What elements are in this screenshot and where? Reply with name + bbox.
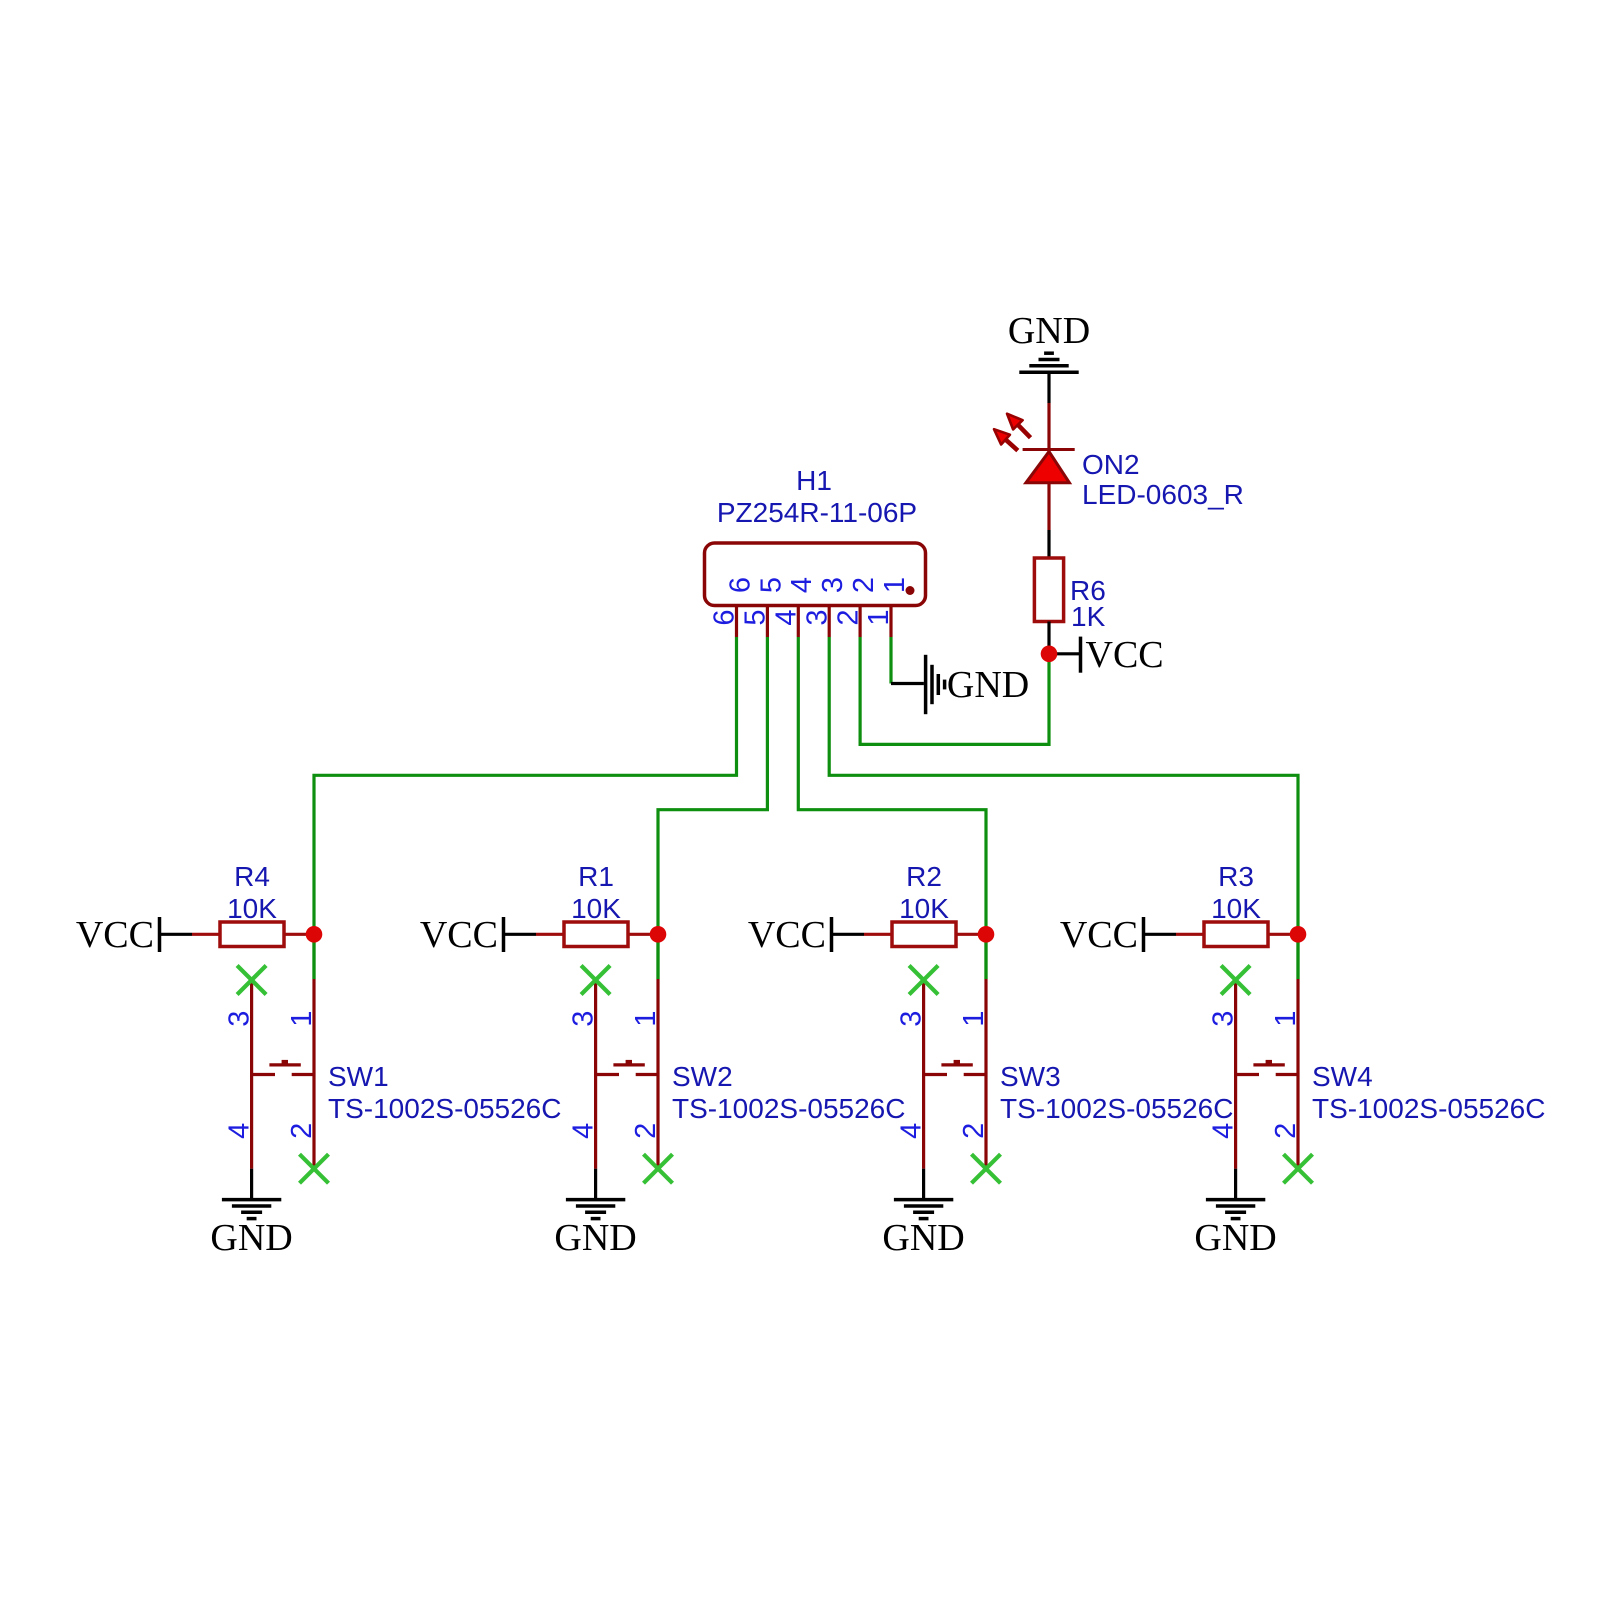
ground symbol GND (SW3) — [882, 1200, 964, 1259]
resistor R6 — [1034, 558, 1063, 622]
wire switch pin 4 to GND (SW2) — [594, 1169, 597, 1200]
svg-text:TS-1002S-05526C: TS-1002S-05526C — [328, 1093, 561, 1124]
power port VCC (section 1) — [76, 914, 192, 956]
wire node to switch pin 1 (section 3) — [984, 934, 987, 979]
resistor R3 — [1176, 922, 1298, 947]
ground symbol GND (SW1) — [210, 1200, 292, 1259]
svg-text:2: 2 — [286, 1123, 318, 1139]
svg-text:3: 3 — [801, 609, 833, 625]
svg-text:10K: 10K — [227, 893, 277, 924]
svg-text:5: 5 — [755, 577, 787, 593]
svg-text:VCC: VCC — [76, 914, 154, 956]
pin labels SW1 — [224, 1011, 318, 1139]
svg-text:GND: GND — [210, 1217, 292, 1259]
svg-text:10K: 10K — [571, 893, 621, 924]
wire H1 pin 3 to SW4 node — [829, 637, 1298, 979]
svg-text:1: 1 — [1270, 1011, 1302, 1027]
svg-text:LED-0603_R: LED-0603_R — [1082, 479, 1244, 510]
svg-text:2: 2 — [630, 1123, 662, 1139]
wire node to switch pin 1 (section 2) — [656, 934, 659, 979]
svg-text:10K: 10K — [899, 893, 949, 924]
svg-text:3: 3 — [1208, 1011, 1240, 1027]
wire H1 pin 4 to SW3 node — [798, 637, 986, 979]
header pin 5 — [740, 577, 788, 637]
svg-text:R4: R4 — [234, 861, 270, 892]
svg-text:2: 2 — [958, 1123, 990, 1139]
svg-text:4: 4 — [786, 577, 818, 593]
wire R6 to VCC node — [1047, 622, 1050, 655]
switch SW3 — [924, 979, 986, 1169]
connector H1 — [705, 543, 926, 606]
svg-text:6: 6 — [724, 577, 756, 593]
wire H1 pin 1 to GND — [889, 637, 892, 684]
svg-text:1: 1 — [630, 1011, 662, 1027]
svg-text:2: 2 — [1270, 1123, 1302, 1139]
svg-text:4: 4 — [568, 1123, 600, 1139]
no-connect X pin 3 (SW1) — [237, 966, 266, 995]
svg-text:4: 4 — [224, 1123, 256, 1139]
svg-text:2: 2 — [832, 609, 864, 625]
svg-text:1: 1 — [879, 577, 911, 593]
resistor R4 — [192, 922, 314, 947]
svg-text:3: 3 — [817, 577, 849, 593]
svg-text:VCC: VCC — [748, 914, 826, 956]
header pin 6 — [709, 577, 757, 637]
svg-text:GND: GND — [947, 664, 1029, 706]
header pin 1 — [863, 577, 911, 637]
svg-text:2: 2 — [848, 577, 880, 593]
wire node to switch pin 1 (section 1) — [312, 934, 315, 979]
no-connect X pin 2 (SW3) — [972, 1154, 1001, 1183]
svg-text:SW3: SW3 — [1000, 1061, 1061, 1092]
wire node to switch pin 1 (section 4) — [1296, 934, 1299, 979]
svg-text:1: 1 — [863, 609, 895, 625]
svg-text:4: 4 — [896, 1123, 928, 1139]
svg-text:4: 4 — [1208, 1123, 1240, 1139]
switch SW4 — [1236, 979, 1298, 1169]
pin 1 marker dot — [906, 586, 915, 595]
ground symbol GND (SW4) — [1194, 1200, 1276, 1259]
svg-text:10K: 10K — [1211, 893, 1261, 924]
svg-text:6: 6 — [709, 609, 741, 625]
node junction SW2 — [650, 926, 667, 943]
svg-text:1: 1 — [286, 1011, 318, 1027]
wire switch pin 4 to GND (SW1) — [250, 1169, 253, 1200]
svg-text:1K: 1K — [1071, 601, 1106, 632]
svg-text:SW1: SW1 — [328, 1061, 389, 1092]
svg-text:TS-1002S-05526C: TS-1002S-05526C — [1312, 1093, 1545, 1124]
power port VCC (section 2) — [420, 914, 536, 956]
svg-text:R2: R2 — [906, 861, 942, 892]
svg-text:VCC: VCC — [1086, 634, 1164, 676]
no-connect X pin 3 (SW2) — [581, 966, 610, 995]
wire switch pin 4 to GND (SW4) — [1234, 1169, 1237, 1200]
no-connect X pin 2 (SW4) — [1284, 1154, 1313, 1183]
svg-text:SW2: SW2 — [672, 1061, 733, 1092]
svg-text:R1: R1 — [578, 861, 614, 892]
svg-text:GND: GND — [1008, 310, 1090, 352]
svg-text:GND: GND — [1194, 1217, 1276, 1259]
pin labels SW3 — [896, 1011, 990, 1139]
svg-text:3: 3 — [896, 1011, 928, 1027]
header pin 3 — [801, 577, 849, 637]
ground symbol GND (header pin 1) — [891, 655, 1029, 714]
switch SW1 — [252, 979, 314, 1169]
pin labels SW4 — [1208, 1011, 1302, 1139]
svg-text:1: 1 — [958, 1011, 990, 1027]
node VCC junction (LED) — [1041, 646, 1058, 663]
svg-text:3: 3 — [224, 1011, 256, 1027]
ground symbol GND (SW2) — [554, 1200, 636, 1259]
wire switch pin 4 to GND (SW3) — [922, 1169, 925, 1200]
wire H1 pin 6 to SW1 node — [314, 637, 737, 979]
header pin 4 — [771, 577, 819, 637]
svg-text:GND: GND — [554, 1217, 636, 1259]
svg-text:VCC: VCC — [1060, 914, 1138, 956]
svg-text:5: 5 — [740, 609, 772, 625]
wire H1 pin 2 to VCC node (LED) — [860, 637, 1049, 744]
ground symbol (top) — [1019, 353, 1078, 372]
svg-text:H1: H1 — [796, 465, 832, 496]
no-connect X pin 3 (SW4) — [1221, 966, 1250, 995]
resistor R2 — [864, 922, 986, 947]
switch SW2 — [596, 979, 658, 1169]
svg-text:SW4: SW4 — [1312, 1061, 1373, 1092]
resistor R1 — [536, 922, 658, 947]
LED ON2 — [994, 403, 1075, 530]
svg-text:4: 4 — [771, 609, 803, 625]
power port VCC (LED) — [1049, 634, 1164, 676]
wire H1 pin 5 to SW2 node — [658, 637, 767, 979]
pin labels SW2 — [568, 1011, 662, 1139]
svg-text:3: 3 — [568, 1011, 600, 1027]
wire LED to R6 — [1047, 530, 1050, 558]
no-connect X pin 3 (SW3) — [909, 966, 938, 995]
power port VCC (section 3) — [748, 914, 864, 956]
svg-text:PZ254R-11-06P: PZ254R-11-06P — [717, 497, 917, 528]
node junction SW4 — [1290, 926, 1307, 943]
wire GND to LED — [1047, 372, 1050, 403]
svg-text:R3: R3 — [1218, 861, 1254, 892]
svg-text:ON2: ON2 — [1082, 449, 1140, 480]
power port VCC (section 4) — [1060, 914, 1176, 956]
header pin 2 — [832, 577, 880, 637]
no-connect X pin 2 (SW2) — [644, 1154, 673, 1183]
svg-text:TS-1002S-05526C: TS-1002S-05526C — [672, 1093, 905, 1124]
node junction SW3 — [978, 926, 995, 943]
svg-text:TS-1002S-05526C: TS-1002S-05526C — [1000, 1093, 1233, 1124]
no-connect X pin 2 (SW1) — [300, 1154, 329, 1183]
svg-text:GND: GND — [882, 1217, 964, 1259]
node junction SW1 — [306, 926, 323, 943]
svg-text:VCC: VCC — [420, 914, 498, 956]
